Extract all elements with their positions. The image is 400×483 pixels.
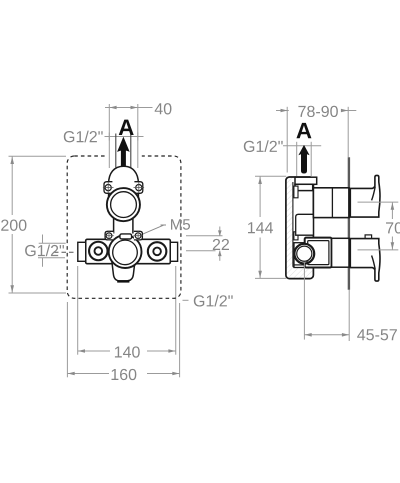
ear tab left bbox=[104, 182, 112, 194]
small chord detail bbox=[307, 258, 311, 262]
middle step bbox=[296, 214, 314, 235]
body outer outline bbox=[286, 177, 314, 279]
text G1/2 top bbox=[64, 131, 103, 143]
pipe above valve bbox=[116, 134, 131, 168]
dim 22 bbox=[186, 227, 223, 261]
right hub port bbox=[148, 242, 167, 261]
mask dash gap behind pipe bbox=[106, 150, 142, 163]
wall line bbox=[348, 157, 350, 290]
body inner wall lines bbox=[293, 182, 314, 267]
lower handle lever curve bbox=[372, 256, 376, 270]
cartridge inner circle bbox=[113, 240, 138, 265]
bar left cap bbox=[78, 242, 86, 261]
centerline stub left of bar bbox=[54, 251, 74, 253]
notch tab upper bbox=[294, 186, 298, 198]
arrow A up (left view) bbox=[117, 137, 130, 172]
bracket screw crosses bbox=[104, 231, 143, 240]
side port circle bbox=[294, 244, 314, 264]
ear screw circles bbox=[105, 185, 142, 191]
spout below bbox=[112, 260, 135, 281]
upper handle bbox=[350, 175, 380, 217]
ear tab right bbox=[134, 182, 142, 194]
arrow A up (right view) bbox=[298, 145, 309, 174]
text G1/2 left bbox=[25, 245, 64, 257]
text G1/2 lower right bbox=[194, 295, 233, 307]
section letter A left bbox=[119, 120, 134, 135]
frame bottom flange bbox=[294, 264, 306, 266]
text 45-57 bbox=[357, 329, 397, 340]
dim 40 line bbox=[105, 107, 153, 109]
lower handle tab bbox=[365, 235, 372, 239]
text 78-90 bbox=[298, 106, 337, 117]
cartridge outer circle bbox=[109, 235, 142, 268]
lower backplate bbox=[294, 243, 306, 268]
ear screw crosses bbox=[103, 182, 144, 193]
flange inner circle bbox=[111, 192, 137, 218]
dim G1/2 left bbox=[38, 235, 66, 267]
flange outer circle bbox=[107, 188, 140, 221]
dim G1/2 right view bbox=[283, 142, 321, 176]
cartridge frame outer bbox=[305, 238, 332, 268]
upper block division bbox=[331, 188, 333, 218]
dim 78-90 bbox=[276, 107, 356, 173]
text 140 bbox=[115, 346, 140, 357]
dashed in-wall box bbox=[67, 156, 181, 298]
bar (lower body) bbox=[86, 239, 171, 263]
text 160 bbox=[112, 369, 137, 380]
text M5 bbox=[171, 219, 190, 229]
cartridge top tab bbox=[120, 234, 132, 239]
left hub port bbox=[89, 242, 108, 261]
upper handle lever curve bbox=[372, 187, 376, 201]
section letter A right bbox=[296, 123, 311, 138]
dome (upper port body) bbox=[109, 166, 139, 204]
body (in-wall unit) hatched bbox=[286, 177, 314, 279]
text 144 bbox=[248, 222, 273, 233]
G1/2 bottom-right leader bbox=[183, 299, 189, 301]
neck bbox=[114, 219, 133, 234]
dim 140 bbox=[78, 266, 176, 355]
bracket screw circles M5 bbox=[106, 233, 141, 239]
lower block bbox=[332, 238, 349, 267]
dim 40 arrows bbox=[110, 106, 138, 110]
bracket tab right bbox=[134, 231, 143, 240]
dim 40 extension lines bbox=[105, 104, 153, 168]
lower handle bbox=[350, 239, 380, 282]
dim 45-57 bbox=[304, 290, 349, 341]
top port union row2 bbox=[295, 184, 313, 190]
text 22 bbox=[213, 239, 229, 250]
spout dark bottom edge bbox=[117, 280, 129, 282]
text G1/2 right view bbox=[244, 140, 283, 152]
dim 160 bbox=[67, 302, 179, 377]
notch tab lower bbox=[294, 232, 298, 240]
bar right cap bbox=[170, 242, 177, 261]
dim 144 bbox=[255, 176, 286, 278]
text 40 bbox=[155, 103, 172, 114]
dim 45-57 left extension (over body) bbox=[303, 262, 305, 340]
top port union row1 bbox=[295, 177, 317, 184]
text 70 bbox=[386, 222, 400, 233]
cartridge frame inner bbox=[308, 241, 329, 265]
dim 70 bbox=[391, 202, 393, 250]
upper block bbox=[313, 188, 349, 218]
text 200 bbox=[1, 220, 26, 231]
M5 leader bbox=[161, 224, 167, 226]
bracket tab left bbox=[105, 231, 113, 240]
dim 70 extension lines (over handles) bbox=[358, 201, 399, 203]
dim G1/2 top line bbox=[105, 136, 144, 138]
dim 200 bbox=[9, 156, 67, 293]
